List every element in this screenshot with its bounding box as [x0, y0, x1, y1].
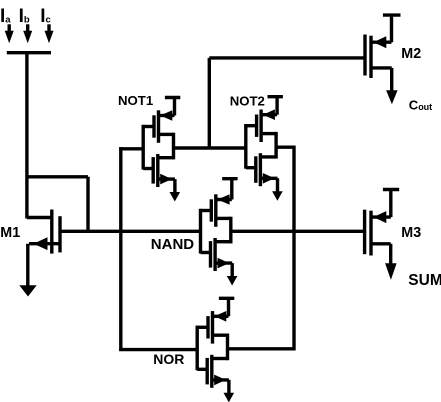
svg-text:NAND: NAND	[151, 236, 194, 253]
M3 drain wire	[371, 244, 391, 264]
NAND inverter drain loop wire	[229, 217, 232, 244]
SUM output arrow	[385, 263, 397, 280]
NAND inverter NMOS gate bar	[209, 241, 212, 268]
NOT1 inverter NMOS gate stub	[143, 167, 153, 170]
NOR inverter ground arrow	[224, 393, 235, 402]
transistor M1 channel bar	[58, 216, 61, 252]
NAND inverter NMOS source arrow	[218, 258, 230, 269]
M3 source wire	[371, 215, 391, 218]
M2 source wire	[371, 41, 392, 44]
NOT2 inverter PMOS drain stub	[261, 132, 276, 135]
NOT2 inverter drain loop wire	[274, 132, 277, 159]
wire NOT1 output up to M2 gate	[209, 58, 363, 148]
svg-text:NOR: NOR	[153, 351, 184, 367]
M1 ground arrow	[19, 285, 36, 296]
NOT2 inverter PMOS VDD T-bar	[268, 95, 283, 115]
NOT2 inverter NMOS source arrow	[263, 173, 275, 184]
Cout output arrow	[386, 90, 398, 104]
NAND inverter PMOS channel bar	[214, 194, 217, 227]
floating gate bar	[7, 51, 51, 54]
input current arrow Ic	[47, 24, 50, 32]
NOR inverter NMOS drain stub	[212, 357, 228, 360]
svg-text:M3: M3	[401, 225, 421, 241]
NOT2 inverter common gate wire	[244, 124, 247, 169]
M3 source arrow	[373, 211, 386, 223]
M2 VDD T-bar	[383, 13, 401, 42]
transistor M1 source arrow	[34, 237, 48, 250]
NOT2 inverter NMOS drain stub	[260, 155, 276, 158]
NAND inverter PMOS drain stub	[216, 217, 231, 220]
input current arrow Ib	[26, 24, 29, 32]
M3 VDD T-bar	[383, 188, 399, 217]
NOT2 inverter NMOS gate bar	[254, 156, 257, 183]
NAND inverter ground arrow	[227, 276, 238, 286]
NOT2 inverter ground arrow	[272, 191, 283, 201]
NOR inverter PMOS channel bar	[211, 311, 214, 344]
NOT1 inverter NMOS channel bar	[156, 154, 159, 187]
svg-text:Ia: Ia	[0, 6, 11, 27]
NOR inverter PMOS source wire	[213, 315, 229, 318]
NOR inverter PMOS gate stub	[197, 326, 208, 329]
NOT1 inverter PMOS source arrow	[160, 110, 172, 121]
NAND inverter NMOS drain stub	[215, 240, 231, 243]
NOT2 inverter PMOS source arrow	[263, 109, 275, 120]
NAND inverter common gate wire	[199, 209, 202, 254]
NAND inverter NMOS gate stub	[201, 251, 211, 254]
NAND inverter PMOS source arrow	[218, 194, 230, 205]
M3 gate bar	[363, 210, 366, 255]
NOT1 inverter PMOS VDD T-bar	[165, 96, 180, 116]
svg-text:SUM: SUM	[408, 272, 441, 289]
left rail wire	[119, 147, 122, 350]
NOT2 output wire	[276, 145, 294, 148]
NOR inverter drain loop wire	[226, 334, 229, 361]
NOT1 inverter PMOS drain stub	[159, 133, 174, 136]
NOT1 inverter drain loop wire	[172, 133, 175, 160]
right rail wire	[292, 146, 295, 351]
NOR input wire	[119, 348, 197, 351]
input current arrow Ia	[7, 24, 10, 32]
NOT1 inverter ground arrow	[170, 192, 181, 202]
NOT2 inverter NMOS channel bar	[259, 153, 262, 186]
NOR inverter PMOS gate bar	[206, 316, 209, 338]
svg-text:Ic: Ic	[40, 6, 51, 27]
NAND inverter PMOS gate stub	[201, 209, 212, 212]
M2 source arrow	[373, 36, 386, 48]
NOR inverter PMOS source arrow	[214, 311, 226, 322]
svg-text:Cout: Cout	[409, 98, 432, 113]
NOR inverter NMOS channel bar	[210, 355, 213, 388]
NOR inverter NMOS gate bar	[205, 358, 208, 385]
main bus M1 drain to NAND gate	[59, 230, 201, 233]
M2 gate bar	[363, 35, 366, 76]
NAND inverter PMOS source wire	[216, 198, 232, 201]
NOR inverter common gate wire	[195, 326, 198, 371]
svg-text:Ib: Ib	[19, 6, 30, 27]
NOR inverter PMOS VDD T-bar	[219, 297, 234, 317]
transistor M1 source wire	[28, 244, 60, 286]
NOT1 inverter PMOS gate bar	[152, 115, 155, 137]
NOT2 inverter NMOS source wire	[260, 178, 277, 191]
svg-text:NOT1: NOT1	[118, 93, 153, 108]
NOT2 inverter PMOS gate bar	[255, 115, 258, 137]
NOT2 inverter PMOS channel bar	[259, 110, 262, 143]
NAND inverter PMOS VDD T-bar	[222, 177, 237, 200]
NOT1 inverter PMOS source wire	[159, 114, 175, 117]
NOT1 inverter NMOS gate bar	[151, 157, 154, 184]
wire M1 gate-drain loop	[27, 177, 88, 232]
NAND inverter PMOS gate bar	[210, 199, 213, 221]
NOT1 inverter PMOS gate stub	[143, 125, 154, 128]
svg-text:NOT2: NOT2	[230, 93, 265, 108]
NOT1 input wire	[119, 147, 143, 150]
NOT1 inverter PMOS channel bar	[157, 110, 160, 143]
main bus NAND output to M3 gate	[231, 230, 364, 233]
NOR inverter NMOS gate stub	[197, 368, 207, 371]
M2 channel bar	[369, 36, 372, 78]
M2 drain wire	[371, 68, 392, 91]
NOT1 output to NOT2 input wire	[174, 146, 246, 149]
svg-text:M1: M1	[0, 225, 20, 241]
M3 channel bar	[369, 211, 372, 256]
transistor M1 gate bar	[50, 210, 53, 254]
wire floating gate to M1 gate	[27, 53, 52, 219]
NOR output wire	[228, 347, 295, 350]
NAND inverter NMOS channel bar	[213, 238, 216, 271]
NOT1 inverter NMOS source wire	[158, 179, 175, 192]
svg-text:M2: M2	[401, 46, 421, 62]
NOT2 inverter PMOS gate stub	[246, 124, 257, 127]
NOT2 inverter PMOS source wire	[261, 113, 277, 116]
NAND inverter NMOS source wire	[215, 263, 232, 276]
NOT1 inverter NMOS source arrow	[160, 174, 172, 185]
NOT1 inverter NMOS drain stub	[158, 156, 174, 159]
NOT2 inverter NMOS gate stub	[246, 166, 256, 169]
NOR inverter PMOS drain stub	[213, 334, 228, 337]
NOT1 inverter common gate wire	[141, 125, 144, 170]
NOR inverter NMOS source wire	[212, 380, 229, 393]
NOR inverter NMOS source arrow	[214, 375, 226, 386]
